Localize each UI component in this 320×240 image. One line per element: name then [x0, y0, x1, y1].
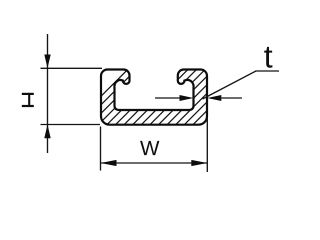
label t: [264, 47, 272, 68]
profile outline stroke: [101, 70, 207, 125]
dimension H: vertical dimension line: [47, 34, 49, 153]
label H (rotated): crossbar: [28, 93, 30, 107]
dimension H: top arrow (points down): [44, 55, 50, 69]
dimension W: horizontal dimension line: [101, 162, 208, 164]
dimension H: bottom arrow (points up): [44, 125, 50, 139]
thickness t: left arrow line: [155, 97, 186, 99]
dimension W: left extension line: [100, 127, 102, 171]
label W: [140, 141, 159, 155]
dimension H: bottom extension line: [41, 124, 101, 126]
thickness t: left arrow (points right at inner wall): [180, 95, 194, 101]
dimension W: left arrow (points left): [101, 160, 117, 166]
label H (rotated): stem 2: [22, 105, 34, 107]
white background: [0, 0, 300, 198]
thickness t: right tail line: [218, 97, 242, 99]
dimension W: right extension line: [206, 118, 208, 172]
thickness t: leader line: [203, 71, 257, 99]
hatching (45-degree section lines): [67, 60, 266, 130]
dimension W: right arrow (points right): [191, 160, 207, 166]
thickness t: shelf line under label: [256, 70, 280, 72]
label H (rotated): stem 1: [22, 93, 34, 95]
thickness t: right arrow (points left at outer wall): [207, 95, 221, 101]
dimension H: top extension line: [41, 67, 103, 69]
